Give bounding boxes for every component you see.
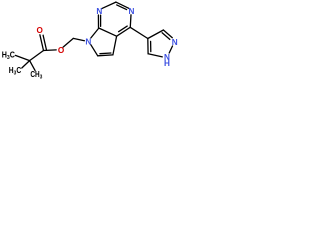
wire double bond C4=C4a edge xyxy=(117,27,131,36)
wire bond H3C(1)-Cq xyxy=(15,55,29,60)
wire double bond C5=C6 edge xyxy=(98,54,113,57)
wire bond C4a-C5 xyxy=(113,36,117,55)
wire double bond C3'=N2' edge xyxy=(163,30,172,38)
wire bond N3-C4 xyxy=(129,15,132,27)
svg-text:O: O xyxy=(58,46,65,55)
wire bond Ccarbonyl-O2 xyxy=(44,49,57,52)
wire bond N1'-C5' xyxy=(148,54,162,57)
wire double bond C2=N3 edge xyxy=(116,2,129,8)
wire double bond C=O main xyxy=(40,35,44,51)
wire bond N1-C2 xyxy=(102,2,116,9)
wire bond C4'-C3' xyxy=(148,30,164,39)
wire double bond C3'=N2' inner xyxy=(162,33,170,40)
wire bond Cq-Ccarbonyl xyxy=(30,51,44,61)
wire bond C4-pyrazole C4' xyxy=(130,27,148,38)
wire double bond C=O second xyxy=(43,35,46,49)
svg-text:H: H xyxy=(164,59,170,68)
wire double bond C7a=N1 edge xyxy=(97,15,99,28)
svg-text:O: O xyxy=(37,26,44,35)
wire bond N2'-N1' xyxy=(169,46,172,53)
wire bond O2-CH2 xyxy=(63,38,73,47)
wire bond C6-N7 xyxy=(91,45,98,56)
wire bond C4a-C7a fused edge xyxy=(99,28,117,36)
wire double bond C2=N3 inner xyxy=(117,5,127,10)
svg-text:H3C: H3C xyxy=(9,66,22,77)
wire bond CH2-N7 xyxy=(73,38,84,40)
wire double bond C5=C6 inner xyxy=(100,52,111,55)
wire double bond C4'=C5' inner xyxy=(150,41,152,51)
svg-text:H3C: H3C xyxy=(2,50,16,61)
wire double bond C4=C4a inner xyxy=(119,26,128,32)
wire double bond C4'=C5' edge xyxy=(147,39,149,54)
wire bond H3C(2)-Cq xyxy=(22,61,30,68)
svg-text:CH3: CH3 xyxy=(30,70,42,81)
wire bond N7-C7a xyxy=(91,28,99,38)
svg-text:N: N xyxy=(128,7,134,16)
wire bond CH3-Cq xyxy=(30,61,35,71)
wire double bond C7a=N1 inner xyxy=(100,15,102,26)
svg-text:N: N xyxy=(96,7,102,16)
svg-text:N: N xyxy=(85,38,91,47)
svg-text:N: N xyxy=(172,38,178,47)
